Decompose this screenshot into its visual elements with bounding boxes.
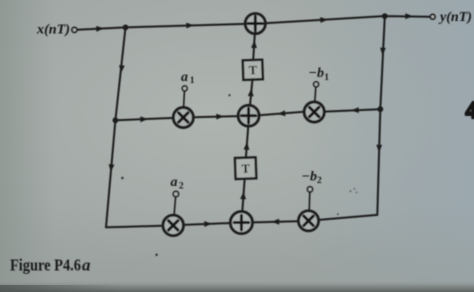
- wire adder S1 to node B: [265, 16, 385, 23]
- node C junction: [113, 117, 119, 123]
- wire node C to multiplier a1: [115, 118, 174, 120]
- svg-text:2: 2: [317, 176, 322, 186]
- coefficient terminal a2: [174, 197, 176, 216]
- coefficient terminal -b1: [315, 87, 316, 102]
- svg-text:T: T: [241, 162, 250, 176]
- svg-text:T: T: [249, 63, 258, 77]
- wire node B down to node E (right vertical upper): [380, 16, 385, 109]
- svg-text:x(nT): x(nT): [36, 22, 70, 37]
- wire node C down to corner D (left vertical lower): [106, 120, 115, 227]
- adder S1 (top): [245, 14, 265, 34]
- svg-text:−b: −b: [309, 66, 324, 81]
- multiplier M1 (a1): [173, 108, 193, 128]
- wire node E down to corner F (right vertical lower): [377, 109, 380, 215]
- svg-text:a: a: [181, 70, 188, 85]
- ink specks: [121, 177, 124, 180]
- multiplier M5 (-b2): [299, 211, 319, 231]
- svg-text:1: 1: [190, 76, 195, 86]
- node A junction: [123, 25, 129, 31]
- wire input to node A: [77, 27, 125, 29]
- multiplier M4 (a2): [163, 215, 183, 235]
- svg-text:4: 4: [466, 98, 474, 124]
- coefficient terminal -b2: [308, 192, 311, 211]
- wire node E to multiplier b1: [324, 109, 380, 111]
- node E junction: [377, 106, 383, 112]
- wire delay T2 up to adder S2: [246, 127, 248, 158]
- node B junction: [382, 13, 388, 19]
- svg-text:2: 2: [179, 182, 184, 192]
- wire adder S2 up to delay T1: [250, 80, 252, 106]
- wire multiplier a1 to adder S2: [193, 116, 238, 117]
- svg-text:a: a: [82, 256, 91, 275]
- coefficient terminal a1: [183, 91, 186, 107]
- svg-text:−b: −b: [302, 169, 317, 184]
- wire delay T1 up to adder S1: [253, 34, 255, 60]
- delay element T1: [243, 60, 263, 80]
- dark page edge strip at bottom: [0, 281, 474, 292]
- adder S3 (bottom): [230, 212, 252, 234]
- output terminal y(nT): [430, 14, 435, 19]
- svg-text:a: a: [171, 175, 178, 190]
- delay element T2: [235, 157, 256, 179]
- wire node A down to node C (left vertical upper): [115, 27, 125, 120]
- wire node B to output: [385, 15, 430, 18]
- adder S2 (middle): [238, 105, 259, 126]
- svg-text:Figure P4.6: Figure P4.6: [10, 256, 81, 275]
- wire corner D to multiplier a2: [106, 226, 164, 228]
- wire multiplier a2 to adder S3: [183, 223, 230, 225]
- multiplier M3 (-b1): [304, 102, 324, 122]
- svg-text:y(nT): y(nT): [438, 9, 472, 24]
- wire adder S3 up to delay T2: [242, 180, 244, 212]
- wire multiplier b2 to adder S3: [253, 221, 299, 222]
- svg-text:1: 1: [324, 73, 329, 83]
- wire multiplier b1 to adder S2: [259, 112, 304, 116]
- wire corner F to multiplier b2: [319, 215, 377, 220]
- wire node A to adder S1: [126, 24, 246, 28]
